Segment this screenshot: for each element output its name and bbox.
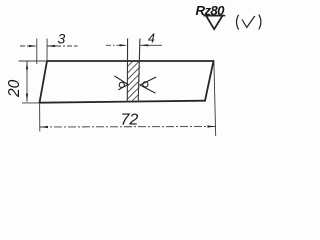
roughness sign bar <box>203 15 225 17</box>
arrow left at 72 <box>40 126 48 128</box>
dim 20 top extension <box>19 60 48 62</box>
dim 72 left extension <box>39 103 41 132</box>
hatching of cut strip <box>121 53 141 119</box>
dimension 3 extension line <box>36 39 38 65</box>
dimension 4 line right tail <box>140 44 162 46</box>
dimension 4 line left tail <box>106 44 128 46</box>
arrow left at 3 <box>47 45 55 47</box>
left slanted edge <box>40 61 48 103</box>
right slanted edge <box>205 61 214 101</box>
bottom edge <box>40 101 206 103</box>
arrow up 20 <box>26 61 28 69</box>
workpiece bar outline <box>40 61 214 103</box>
top edge <box>47 60 214 62</box>
dim 72 right extension <box>214 62 216 137</box>
check mark <box>242 16 255 27</box>
arrow right at 4 <box>120 44 128 46</box>
svg-text:72: 72 <box>121 111 139 128</box>
arrow left at 4 <box>140 44 148 46</box>
roughness sign triangle <box>206 16 223 30</box>
cut strip right line <box>138 39 140 103</box>
dimension 3 line left tail <box>20 45 37 47</box>
svg-text:4: 4 <box>148 31 155 45</box>
dim 20 line <box>26 61 28 101</box>
svg-text:3: 3 <box>58 31 66 47</box>
dim 20 bottom extension <box>22 102 40 104</box>
arrow down 20 <box>26 94 28 102</box>
left edge extension up <box>46 39 48 62</box>
dim 72 line <box>40 126 215 129</box>
right paren <box>259 15 261 30</box>
arrow right at 3 <box>29 45 37 47</box>
roughness symbol right of cut <box>140 77 156 93</box>
cut strip left line <box>126 39 128 103</box>
dimension 3 line right tail <box>47 45 78 47</box>
roughness symbol left of cut <box>114 76 128 90</box>
arrow right at 72 <box>207 125 215 127</box>
svg-text:20: 20 <box>6 79 23 98</box>
(v) rest-of-surfaces sign: left paren <box>237 15 239 30</box>
